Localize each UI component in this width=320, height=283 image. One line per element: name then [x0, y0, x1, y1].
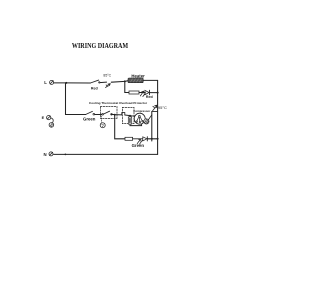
node red lamp rail: [157, 92, 159, 94]
wire right rail: [157, 80, 159, 154]
switch contact: [99, 82, 100, 83]
wire inner rail: [151, 112, 153, 141]
svg-text:N: N: [44, 152, 47, 157]
wire L to junction: [54, 82, 67, 84]
wire junction to switch: [66, 82, 90, 84]
overload heater element: [128, 117, 131, 124]
thermostat contact right: [111, 114, 113, 116]
node green branch tap: [114, 114, 116, 116]
svg-text:Red: Red: [91, 87, 98, 91]
node overload: [129, 115, 131, 117]
wire switch to thermal cutout: [100, 81, 107, 84]
wire green lamp branch: [115, 115, 125, 139]
wire N rail: [54, 153, 158, 155]
wire resistor to LED: [133, 138, 143, 140]
thermostat sensing line (dashed): [101, 116, 103, 123]
node inner rail: [151, 138, 153, 140]
thermal cutout 95C arrow: [153, 105, 158, 111]
LED red: [140, 90, 149, 96]
svg-text:Red: Red: [146, 95, 153, 99]
svg-text:L: L: [44, 80, 47, 85]
wire staple to node: [125, 114, 130, 117]
wire node to compressor: [130, 115, 135, 118]
svg-text:E: E: [42, 116, 45, 120]
node N rail: [65, 154, 67, 156]
ground (chassis): [49, 123, 54, 128]
resistor (green lamp): [125, 137, 133, 140]
wire to thermostat box: [95, 114, 102, 116]
terminal L: [50, 80, 54, 84]
wire cutout to heater node: [111, 80, 125, 83]
heater element: [128, 78, 143, 83]
thermostat sensor bulb: [100, 123, 105, 128]
cooling thermostat box (dashed): [100, 107, 117, 119]
wire thermostat to node: [111, 114, 115, 116]
overload contact staple: [122, 113, 125, 115]
node heater left: [124, 80, 126, 82]
wire node to overload: [115, 114, 122, 116]
svg-text:Green: Green: [83, 117, 96, 122]
wire heater to right rail: [143, 79, 157, 81]
wire LED to rail: [150, 92, 158, 94]
wire red-lamp branch: [125, 81, 129, 92]
thermostat contact: [102, 113, 104, 115]
switch (Green) contact: [93, 113, 95, 115]
terminal E: [47, 116, 51, 120]
resistor (red lamp): [129, 91, 139, 94]
compressor motor: [134, 113, 145, 124]
wire resistor to LED: [139, 92, 145, 94]
wire LED to rails: [148, 138, 158, 140]
svg-text:Compressor: Compressor: [133, 109, 151, 113]
switch (Green) blade: [86, 111, 93, 114]
PTC starter: [144, 115, 152, 124]
switch (Red) blade: [90, 80, 98, 83]
wire overload bottom to compressor bottom: [130, 124, 142, 126]
LED green: [137, 137, 147, 145]
svg-text:85°C: 85°C: [103, 73, 111, 77]
svg-text:WIRING DIAGRAM: WIRING DIAGRAM: [72, 42, 129, 50]
svg-text:Heater: Heater: [131, 74, 145, 79]
svg-text:95°C: 95°C: [158, 105, 167, 110]
wire E to ground: [51, 118, 53, 123]
node outer rail: [157, 138, 159, 140]
node L junction: [65, 82, 67, 84]
thermal cutout 85C arrow: [106, 84, 111, 88]
thermostat blade: [103, 111, 109, 114]
overload protector box (dashed): [122, 107, 134, 123]
wire cutout output connector: [152, 111, 158, 113]
svg-text:Green: Green: [132, 143, 145, 148]
wire L down to middle row: [66, 83, 86, 115]
svg-text:Cooling Thermostat Overload Pr: Cooling Thermostat Overload Protector: [89, 101, 148, 105]
terminal N: [49, 152, 53, 156]
